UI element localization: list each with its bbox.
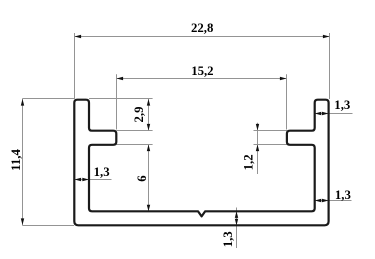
- svg-text:1,2: 1,2: [241, 154, 255, 170]
- svg-text:11,4: 11,4: [9, 149, 23, 171]
- svg-text:1,3: 1,3: [334, 98, 350, 112]
- svg-text:1,3: 1,3: [94, 165, 110, 179]
- svg-text:1,3: 1,3: [335, 188, 351, 202]
- svg-text:22,8: 22,8: [191, 21, 213, 35]
- svg-text:15,2: 15,2: [191, 64, 213, 78]
- svg-text:6: 6: [135, 175, 149, 182]
- svg-text:1,3: 1,3: [221, 231, 235, 247]
- svg-text:2,9: 2,9: [132, 107, 146, 123]
